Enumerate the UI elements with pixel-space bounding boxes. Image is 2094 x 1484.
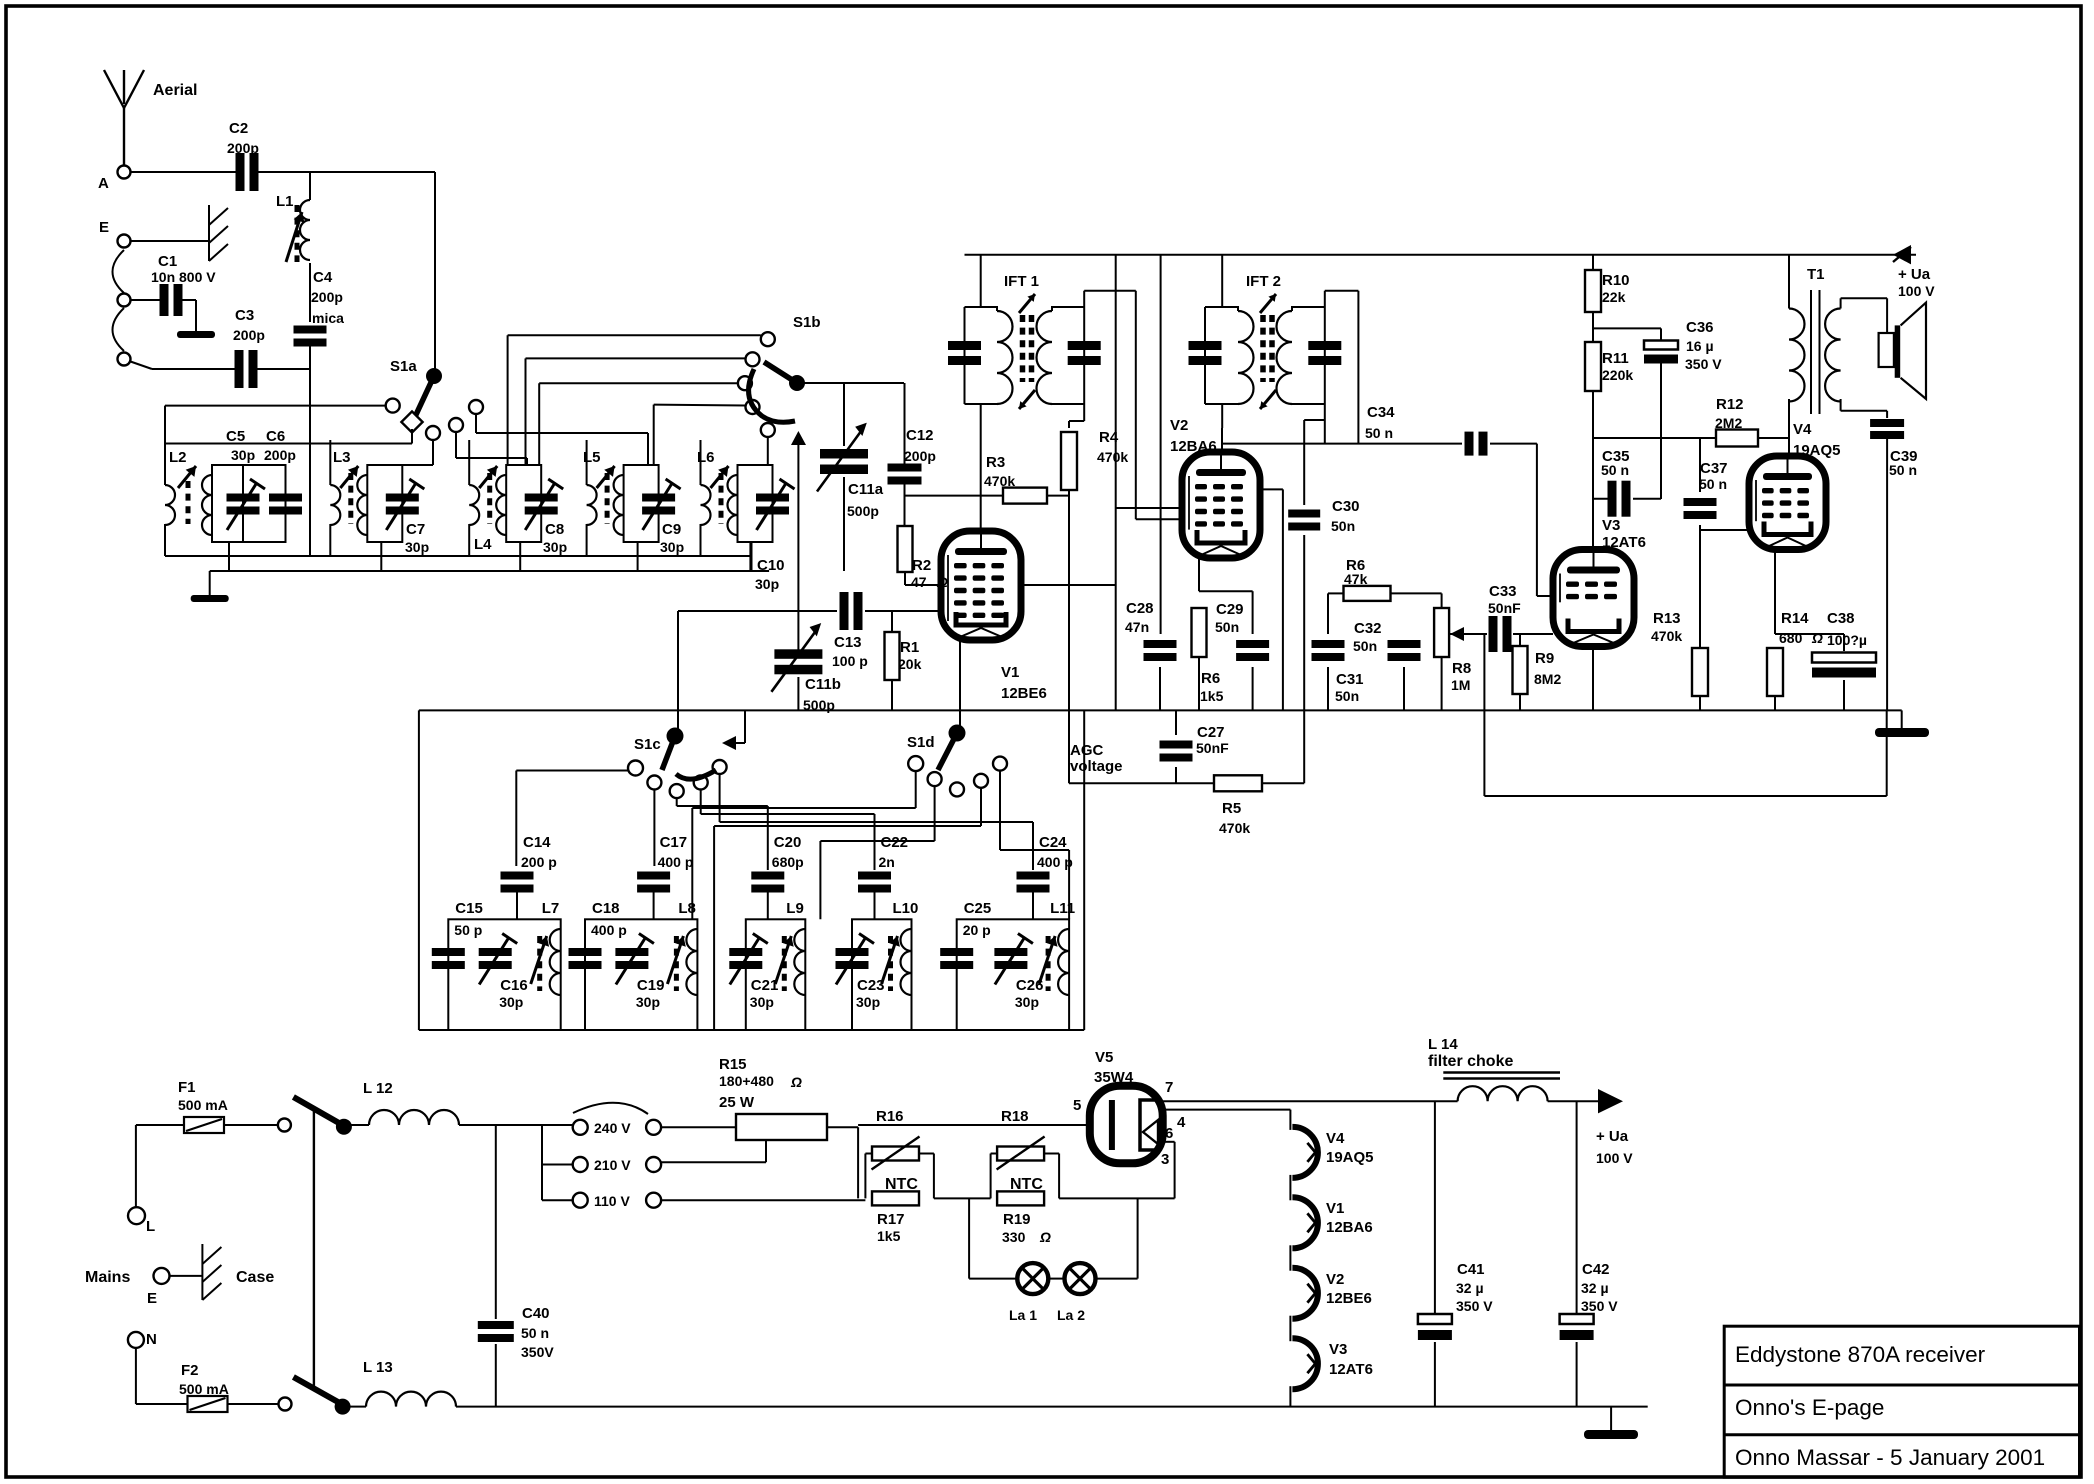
L3 core and arrow xyxy=(348,473,353,524)
svg-text:20k: 20k xyxy=(898,656,922,672)
V5 pin7 wire B+ xyxy=(1163,1100,1458,1102)
T1 secondary top lead xyxy=(1840,298,1842,308)
heater V3 xyxy=(1292,1338,1318,1389)
svg-text:100 V: 100 V xyxy=(1898,283,1935,299)
+Ua feed arrow xyxy=(1893,245,1911,264)
svg-text:R5: R5 xyxy=(1222,800,1241,817)
IFT2 secondary bottom xyxy=(1324,404,1326,444)
svg-text:C24: C24 xyxy=(1039,834,1067,851)
L6 primary lead xyxy=(700,440,702,485)
wire S1c c4 to C22 xyxy=(700,790,702,815)
svg-text:V2: V2 xyxy=(1170,417,1188,434)
svg-text:V3: V3 xyxy=(1602,517,1620,534)
svg-text:200p: 200p xyxy=(264,447,296,463)
wire S1a c5 to L5 top xyxy=(475,414,477,433)
S1b pole xyxy=(789,375,805,391)
wire R3 right xyxy=(1047,495,1069,497)
svg-text:19AQ5: 19AQ5 xyxy=(1793,442,1841,459)
chassis case symbol top xyxy=(208,205,210,261)
terminal A xyxy=(118,166,131,179)
svg-text:Onno's E-page: Onno's E-page xyxy=(1735,1395,1884,1420)
vertical B+ line xyxy=(1115,255,1117,711)
R18R19 brackets xyxy=(991,1153,997,1155)
chassis case symbol bottom xyxy=(201,1244,203,1300)
svg-text:L11: L11 xyxy=(1050,900,1075,917)
IFT1 core xyxy=(1020,315,1026,382)
wire S1c c3 to C20 xyxy=(676,798,678,806)
AGC wire xyxy=(1069,782,1214,784)
capacitor C30 xyxy=(1288,510,1320,518)
L6 core and arrow xyxy=(719,473,724,524)
svg-text:C25: C25 xyxy=(964,900,992,917)
svg-text:L 13: L 13 xyxy=(363,1359,393,1376)
svg-text:50n: 50n xyxy=(1335,688,1359,704)
svg-text:4: 4 xyxy=(1177,1114,1186,1131)
S1d contact 3 xyxy=(950,782,964,796)
capacitor C27 xyxy=(1175,710,1177,735)
resistor R3 xyxy=(1003,488,1047,504)
svg-text:50n: 50n xyxy=(1331,518,1355,534)
svg-text:30p: 30p xyxy=(660,539,684,555)
mains switch upper xyxy=(293,1097,339,1123)
coil L4 primary xyxy=(469,485,479,525)
wire S1c c2 to C17 xyxy=(653,790,655,867)
wire C34 right to V3 xyxy=(1490,443,1537,445)
wire R12 right xyxy=(1758,437,1789,439)
lower return wire xyxy=(1483,634,1485,796)
S1d pole xyxy=(949,725,966,742)
trimmer C5 xyxy=(227,494,260,502)
svg-text:C22: C22 xyxy=(881,834,909,851)
svg-text:1M: 1M xyxy=(1451,677,1470,693)
capacitor C12 xyxy=(888,464,922,472)
V2 screen wire right xyxy=(1260,488,1283,490)
svg-text:R9: R9 xyxy=(1535,650,1554,667)
heater V1 xyxy=(1292,1197,1318,1248)
svg-text:La 1: La 1 xyxy=(1009,1307,1037,1323)
capacitor C35 xyxy=(1593,498,1610,500)
wire C1 to ground xyxy=(181,299,196,301)
wire V1 right down xyxy=(1115,585,1117,710)
svg-text:+ Ua: + Ua xyxy=(1596,1128,1629,1145)
svg-text:C5: C5 xyxy=(226,428,245,445)
S1d contact L xyxy=(908,756,923,771)
wire C12 down xyxy=(904,484,906,526)
svg-text:C15: C15 xyxy=(455,900,483,917)
svg-text:C4: C4 xyxy=(313,269,333,286)
tube V3 12AT6 xyxy=(1553,550,1634,647)
L5 primary lead xyxy=(586,440,588,485)
svg-text:12BA6: 12BA6 xyxy=(1170,438,1217,455)
resistor R1 xyxy=(891,611,893,632)
wire R15 right xyxy=(827,1126,858,1128)
svg-text:R17: R17 xyxy=(877,1211,905,1228)
heater V4 xyxy=(1292,1127,1318,1178)
resistor R14 xyxy=(1774,550,1776,561)
svg-text:C19: C19 xyxy=(637,977,665,994)
L5 stub to bus2 xyxy=(637,542,639,571)
heater top wire xyxy=(858,1124,1090,1126)
svg-text:R1: R1 xyxy=(900,639,919,656)
svg-text:30p: 30p xyxy=(1015,994,1039,1010)
terminal 4 xyxy=(118,353,131,366)
svg-text:220k: 220k xyxy=(1602,367,1633,383)
svg-text:filter choke: filter choke xyxy=(1428,1053,1513,1070)
L2 core and arrow xyxy=(186,481,191,524)
svg-text:350V: 350V xyxy=(521,1344,554,1360)
tap 240V xyxy=(573,1120,588,1135)
resistor R2 xyxy=(898,526,913,572)
wire C11b to bus xyxy=(797,677,799,710)
coil L9 xyxy=(794,929,805,995)
capacitor C38 electrolytic xyxy=(1843,634,1845,651)
svg-text:R13: R13 xyxy=(1653,610,1681,627)
svg-text:47: 47 xyxy=(911,574,927,590)
svg-text:7: 7 xyxy=(1165,1079,1173,1096)
L3 stub to bus2 xyxy=(380,542,382,571)
svg-text:C36: C36 xyxy=(1686,319,1714,336)
svg-text:30p: 30p xyxy=(636,994,660,1010)
L8 box xyxy=(585,919,697,1030)
bus2 ground bus xyxy=(210,570,769,572)
svg-text:470k: 470k xyxy=(1219,820,1250,836)
svg-text:50 n: 50 n xyxy=(1365,425,1393,441)
svg-text:L8: L8 xyxy=(678,900,696,917)
svg-text:L 14: L 14 xyxy=(1428,1036,1458,1053)
ground symbol bus2 xyxy=(209,571,211,595)
svg-text:L10: L10 xyxy=(893,900,919,917)
IFT1 primary lead xyxy=(980,255,982,307)
svg-text:S1b: S1b xyxy=(793,314,821,331)
T1 primary coil xyxy=(1789,309,1804,402)
wire R5 right xyxy=(1262,782,1304,784)
L3 box xyxy=(367,465,402,542)
svg-text:47k: 47k xyxy=(1344,571,1368,587)
IFT2 trim arrows xyxy=(1260,294,1276,313)
svg-text:R15: R15 xyxy=(719,1056,747,1073)
capacitor C13 xyxy=(840,592,849,630)
V3 anode stub xyxy=(1592,499,1594,550)
svg-text:30p: 30p xyxy=(856,994,880,1010)
svg-text:30p: 30p xyxy=(231,447,255,463)
V5 filament bracket xyxy=(1140,1100,1155,1150)
svg-text:30p: 30p xyxy=(405,539,429,555)
svg-text:V2: V2 xyxy=(1326,1271,1344,1288)
wire S1b c5 to L6 xyxy=(767,437,769,466)
IFT1 primary coil xyxy=(965,307,998,311)
wire C11a to bus2 xyxy=(843,477,845,571)
svg-text:Onno Massar - 5 January 2001: Onno Massar - 5 January 2001 xyxy=(1735,1445,2045,1470)
svg-text:V1: V1 xyxy=(1001,664,1019,681)
svg-text:680: 680 xyxy=(1779,630,1803,646)
S1a contact 3 xyxy=(426,426,440,440)
svg-text:22k: 22k xyxy=(1602,289,1626,305)
svg-text:50 n: 50 n xyxy=(1889,462,1917,478)
wire S1d c3 to V1 cathode xyxy=(956,726,958,782)
trimmer C26 xyxy=(994,948,1027,956)
S1b contact 2 xyxy=(746,352,760,366)
wire S1c c5 to C24 xyxy=(719,774,721,822)
wire to C38 xyxy=(1775,633,1844,635)
svg-text:R19: R19 xyxy=(1003,1211,1031,1228)
svg-text:R14: R14 xyxy=(1781,610,1809,627)
capacitor C4 xyxy=(294,326,327,334)
IFT2 primary coil xyxy=(1205,307,1238,311)
resistor R12 xyxy=(1716,430,1758,447)
svg-text:L 12: L 12 xyxy=(363,1080,393,1097)
IFT1 trim arrows xyxy=(1019,294,1035,313)
svg-text:30p: 30p xyxy=(499,994,523,1010)
IFT2 secondary coil xyxy=(1292,307,1325,311)
switch link xyxy=(313,1111,315,1386)
aerial antenna symbol xyxy=(123,108,125,166)
S1b contact 3 xyxy=(738,376,752,390)
capacitor C40 xyxy=(495,1125,497,1319)
V5 pin3 wire xyxy=(1163,1141,1175,1143)
svg-text:AGC: AGC xyxy=(1070,742,1104,759)
capacitor C18 xyxy=(569,948,602,956)
gang capacitor C11a xyxy=(820,449,868,459)
resistor R6 1k5 xyxy=(1192,608,1207,657)
wire C33 to V3 xyxy=(1513,633,1553,635)
svg-text:L3: L3 xyxy=(333,449,351,466)
trimmer C19 xyxy=(615,948,648,956)
IFT2 core xyxy=(1260,315,1266,382)
S1b contact 1 xyxy=(761,332,775,346)
wire L1 to C4 xyxy=(309,263,311,322)
T1 primary lead xyxy=(1788,255,1790,309)
svg-text:240 V: 240 V xyxy=(594,1120,631,1136)
coil L5 secondary xyxy=(614,475,624,535)
svg-text:voltage: voltage xyxy=(1070,758,1123,775)
wire N to F2 xyxy=(135,1348,137,1404)
svg-text:C37: C37 xyxy=(1700,460,1728,477)
wire S1c feed xyxy=(677,611,679,736)
svg-text:16 µ: 16 µ xyxy=(1686,338,1714,354)
wire S1d L to L8 xyxy=(915,771,917,808)
S1b wiper arc xyxy=(749,369,795,422)
wire R11 down xyxy=(1592,391,1594,550)
svg-text:2n: 2n xyxy=(879,854,895,870)
svg-text:12AT6: 12AT6 xyxy=(1329,1361,1373,1378)
S1c pole xyxy=(667,728,684,745)
wire C36 down xyxy=(1660,362,1662,499)
svg-text:C1: C1 xyxy=(158,253,177,270)
svg-text:110 V: 110 V xyxy=(594,1193,630,1209)
wire R10 R11 xyxy=(1592,312,1594,342)
svg-text:IFT 2: IFT 2 xyxy=(1246,273,1281,290)
coil L6 secondary xyxy=(728,475,738,535)
svg-text:30p: 30p xyxy=(755,576,779,592)
svg-text:E: E xyxy=(147,1290,157,1307)
L4 box xyxy=(506,465,541,542)
IFT2 secondary top wire xyxy=(1324,291,1326,307)
V5 cathode bar xyxy=(1109,1100,1115,1150)
lamp feed xyxy=(968,1198,970,1278)
AGC vertical lower xyxy=(1303,535,1305,783)
thermistor R18 NTC xyxy=(997,1147,1044,1161)
IFT2 primary bottom to V2 xyxy=(1221,404,1223,428)
svg-text:V4: V4 xyxy=(1793,421,1812,438)
svg-text:50 n: 50 n xyxy=(1601,462,1629,478)
S1a contact 4 xyxy=(449,418,463,432)
wire E to chassis xyxy=(130,240,209,242)
V5 pin4 wire xyxy=(1163,1109,1291,1111)
left outer wire xyxy=(164,406,166,485)
wire S1b c3 xyxy=(539,382,738,384)
tube V2 12BA6 xyxy=(1182,452,1260,558)
svg-text:Case: Case xyxy=(236,1269,274,1286)
wire S1b c2 xyxy=(526,357,746,359)
svg-text:S1c: S1c xyxy=(634,736,661,753)
V2 anode stub xyxy=(1221,428,1223,452)
trimmer C8 xyxy=(525,494,558,502)
svg-text:C20: C20 xyxy=(774,834,802,851)
capacitor C2 xyxy=(236,153,245,191)
svg-text:400 p: 400 p xyxy=(1037,854,1073,870)
speaker xyxy=(1879,333,1894,367)
wire S1b to C12 xyxy=(904,383,906,464)
svg-text:C42: C42 xyxy=(1582,1261,1610,1278)
svg-text:C34: C34 xyxy=(1367,404,1395,421)
svg-text:400 p: 400 p xyxy=(658,854,694,870)
svg-text:V1: V1 xyxy=(1326,1200,1344,1217)
capacitor C36 electrolytic xyxy=(1593,327,1661,329)
+Ua arrow bottom xyxy=(1598,1089,1623,1113)
svg-text:La 2: La 2 xyxy=(1057,1307,1085,1323)
terminal 3 xyxy=(118,294,131,307)
svg-text:1k5: 1k5 xyxy=(877,1228,901,1244)
coil L2 secondary xyxy=(202,475,212,535)
svg-text:C32: C32 xyxy=(1354,620,1382,637)
svg-text:C14: C14 xyxy=(523,834,551,851)
svg-text:Ω: Ω xyxy=(790,1074,802,1090)
IFT2 primary cap xyxy=(1189,341,1222,350)
svg-text:F1: F1 xyxy=(178,1079,196,1096)
tube V4 19AQ5 xyxy=(1749,456,1826,550)
wire S1c L to C14 xyxy=(516,770,628,772)
svg-text:C6: C6 xyxy=(266,428,285,445)
S1a contact 5 xyxy=(469,400,483,414)
wire C39 down xyxy=(1886,437,1888,710)
svg-text:20 p: 20 p xyxy=(963,922,991,938)
tap feed wires xyxy=(542,1124,573,1126)
capacitor C41 xyxy=(1434,1101,1436,1313)
svg-text:500 mA: 500 mA xyxy=(179,1381,229,1397)
S1c wiper arrow xyxy=(722,736,736,750)
svg-text:200p: 200p xyxy=(311,289,343,305)
svg-text:12BA6: 12BA6 xyxy=(1326,1219,1373,1236)
bus1 antenna return xyxy=(165,555,750,557)
capacitor C15 xyxy=(432,948,465,956)
svg-text:C28: C28 xyxy=(1126,600,1154,617)
IFT1 primary cap xyxy=(948,341,981,350)
svg-text:200 p: 200 p xyxy=(521,854,557,870)
svg-text:L9: L9 xyxy=(786,900,804,917)
capacitor C17 xyxy=(637,872,670,880)
svg-text:C18: C18 xyxy=(592,900,620,917)
resistor R11 xyxy=(1585,342,1601,391)
wire S1b pole to C12 xyxy=(797,382,904,384)
trimmer C16 xyxy=(479,948,512,956)
capacitor C24 xyxy=(1017,872,1050,880)
svg-text:C12: C12 xyxy=(906,427,934,444)
svg-text:50nF: 50nF xyxy=(1196,740,1229,756)
rotor arrow from C11b xyxy=(797,445,799,651)
capacitor C37 xyxy=(1699,438,1701,492)
heater chain to bus xyxy=(1289,1386,1291,1406)
svg-text:R11: R11 xyxy=(1602,350,1629,367)
V5 pin5 wire xyxy=(1059,1124,1090,1126)
S1c contact 4 xyxy=(694,776,708,790)
top supply bus xyxy=(965,254,1917,256)
svg-text:50n: 50n xyxy=(1215,619,1239,635)
coil L11 xyxy=(1058,929,1069,995)
wire S1a c3 down xyxy=(432,440,434,465)
L6 stub to bus2 xyxy=(751,542,753,571)
L9 box xyxy=(746,919,806,1030)
capacitor C39 xyxy=(1870,419,1904,427)
svg-text:L4: L4 xyxy=(474,536,492,553)
L2 block stub to bus2 xyxy=(228,542,230,571)
IFT2 secondary cap xyxy=(1308,341,1341,350)
wire La1 La2 xyxy=(1049,1278,1065,1280)
wire 110V to NTC xyxy=(661,1199,858,1201)
svg-text:C21: C21 xyxy=(751,977,779,994)
svg-text:Eddystone 870A receiver: Eddystone 870A receiver xyxy=(1735,1342,1986,1367)
R16R17 brackets xyxy=(865,1153,872,1155)
IFT1 secondary bottom to R4 xyxy=(1083,404,1085,421)
svg-text:V4: V4 xyxy=(1326,1130,1345,1147)
thermistor R16 NTC xyxy=(872,1147,919,1161)
wire S1b c1 xyxy=(508,334,761,336)
V1 cathode stub xyxy=(959,640,961,726)
svg-text:Ω: Ω xyxy=(1811,630,1823,646)
svg-text:C41: C41 xyxy=(1457,1261,1485,1278)
cable arcs xyxy=(113,250,125,293)
svg-text:500 mA: 500 mA xyxy=(178,1097,228,1113)
S1c contact 3 xyxy=(670,784,684,798)
gang capacitor C11b xyxy=(797,611,799,651)
resistor R9 xyxy=(1519,634,1521,646)
wire S1d c4 to ground xyxy=(980,788,982,826)
capacitor C31 xyxy=(1327,593,1329,634)
svg-text:C31: C31 xyxy=(1336,671,1364,688)
wire L14 right +Ua xyxy=(1548,1100,1598,1102)
svg-text:R6: R6 xyxy=(1201,670,1220,687)
svg-text:IFT 1: IFT 1 xyxy=(1004,273,1039,290)
svg-text:500p: 500p xyxy=(847,503,879,519)
svg-text:N: N xyxy=(146,1331,157,1348)
svg-text:32 µ: 32 µ xyxy=(1581,1280,1609,1296)
tube V5 35W4 xyxy=(1090,1086,1163,1164)
T1 secondary coil xyxy=(1825,309,1841,402)
L6 box xyxy=(738,465,773,542)
svg-text:19AQ5: 19AQ5 xyxy=(1326,1149,1374,1166)
wire S1d c5 to L11 xyxy=(999,771,1001,850)
wire C3C4 junction down to bus1 xyxy=(309,369,311,556)
resistor R19 xyxy=(997,1191,1044,1205)
wire S1b c4 xyxy=(654,404,746,407)
vertical to V2 grid xyxy=(1135,291,1137,520)
wire L12 right xyxy=(459,1124,573,1126)
wire C3 to C4 junction xyxy=(256,368,310,370)
svg-text:200p: 200p xyxy=(227,140,259,156)
svg-text:6: 6 xyxy=(1165,1125,1173,1142)
svg-text:350 V: 350 V xyxy=(1685,356,1722,372)
switch contact lower xyxy=(279,1398,292,1411)
capacitor C28 xyxy=(1160,255,1162,634)
